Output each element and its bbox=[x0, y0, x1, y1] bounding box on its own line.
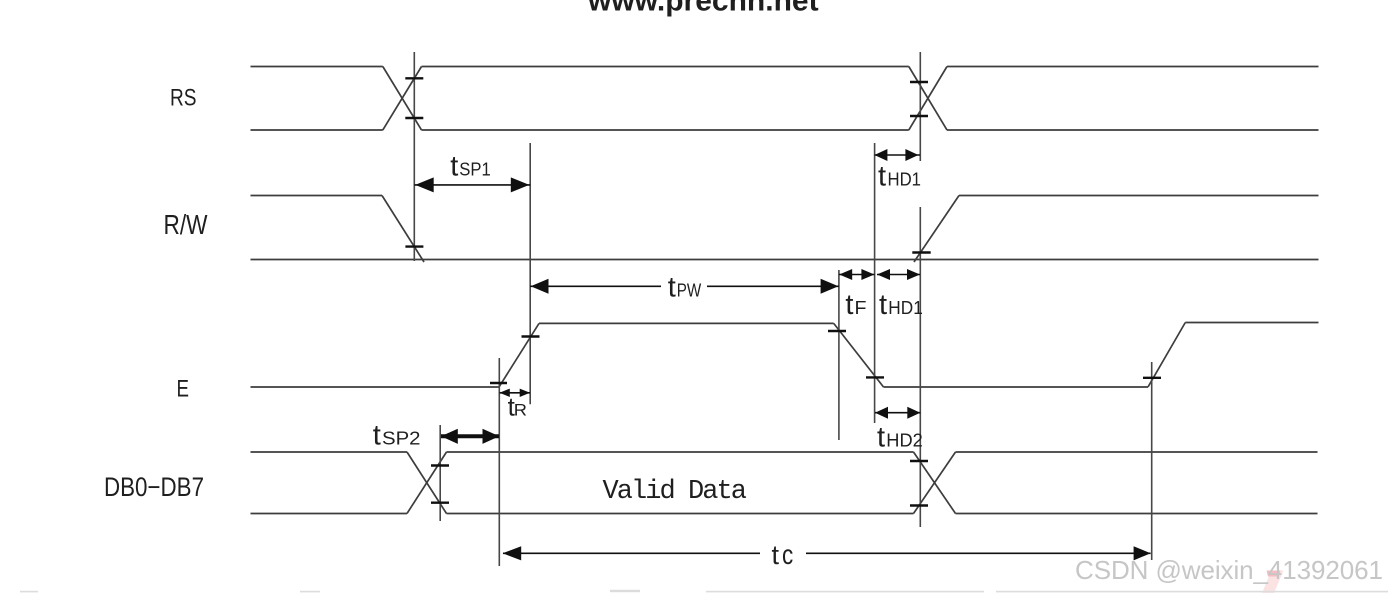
tick RS crossover1 lower bbox=[405, 117, 423, 119]
tick E fall top bbox=[828, 330, 846, 332]
DB crossover 2 falling edge bbox=[914, 452, 956, 514]
tick E fall bottom bbox=[866, 376, 884, 378]
dimension arrow tHD1 mid bbox=[877, 269, 920, 280]
signal DB low rail 3 bbox=[956, 513, 1318, 515]
label tPW bbox=[668, 271, 702, 303]
reference line x=1152 (tc end / E rise 2) bbox=[1151, 362, 1153, 560]
svg-text:PW: PW bbox=[677, 279, 702, 300]
svg-text:Valid Data: Valid Data bbox=[603, 477, 748, 507]
signal R/W low rail bbox=[251, 259, 1319, 261]
label tHD1 top bbox=[878, 161, 921, 193]
label tSP2 bbox=[373, 419, 421, 451]
tick DB crossover2 upper bbox=[910, 460, 928, 462]
reference line x=920 lower bbox=[919, 207, 921, 527]
svg-text:HD2: HD2 bbox=[886, 430, 923, 451]
signal RS low rail segment 2 bbox=[422, 129, 909, 131]
signal E high rail right bbox=[1185, 322, 1318, 324]
signal DB high rail 1 bbox=[251, 451, 408, 453]
E falling edge bbox=[834, 323, 884, 387]
svg-text:RS: RS bbox=[170, 85, 197, 112]
svg-text:R/W: R/W bbox=[164, 209, 208, 240]
bottom edge faint artifacts bbox=[20, 590, 1388, 593]
signal RS low rail segment 1 bbox=[251, 129, 383, 131]
dimension arrow tSP2 (bold) bbox=[441, 429, 499, 444]
RS crossover 1 rising edge bbox=[383, 67, 422, 131]
E rising edge 2 bbox=[1148, 323, 1185, 388]
signal R/W high rail right bbox=[959, 195, 1319, 197]
svg-text:HD1: HD1 bbox=[888, 297, 923, 318]
E rising edge 1 bbox=[499, 323, 539, 387]
svg-text:DB0−DB7: DB0−DB7 bbox=[104, 472, 204, 502]
dimension arrow tPW bbox=[530, 279, 839, 294]
signal R/W high rail left bbox=[251, 195, 383, 197]
reference line x=414 (RS transition) bbox=[413, 52, 415, 261]
CSDN watermark red logo slash bbox=[1262, 571, 1284, 593]
svg-text:CSDN @weixin_41392061: CSDN @weixin_41392061 bbox=[1075, 555, 1383, 585]
R/W rising edge bbox=[914, 196, 959, 263]
label tHD1 mid bbox=[879, 289, 923, 321]
tick R/W rising edge bbox=[912, 251, 930, 253]
CSDN watermark red logo dark spot bbox=[1267, 571, 1281, 577]
RS crossover 2 rising edge bbox=[909, 67, 947, 131]
dimension arrow tR bbox=[500, 389, 531, 397]
tick E rise1 base bbox=[490, 382, 507, 384]
RS crossover 2 falling edge bbox=[909, 67, 947, 131]
tick DB crossover1 lower bbox=[431, 502, 449, 504]
svg-text:R: R bbox=[514, 402, 527, 420]
svg-text:t: t bbox=[373, 419, 381, 451]
svg-text:SP1: SP1 bbox=[459, 158, 491, 179]
tick DB crossover1 upper bbox=[431, 464, 449, 466]
dimension arrow tHD2 bbox=[875, 407, 920, 419]
svg-text:E: E bbox=[177, 375, 190, 402]
tick E rise1 mid bbox=[522, 335, 540, 337]
signal RS high rail segment 1 bbox=[251, 66, 383, 68]
signal DB low rail 2 bbox=[447, 513, 914, 515]
label tF bbox=[845, 289, 866, 321]
dimension arrow tF bbox=[839, 269, 875, 280]
signal E low rail left bbox=[251, 386, 500, 388]
signal DB high rail 2 bbox=[447, 451, 914, 453]
svg-text:t: t bbox=[877, 422, 885, 454]
reference line x=875 (E fall end) bbox=[874, 143, 876, 423]
tick R/W falling edge bbox=[405, 245, 423, 247]
tick DB crossover2 lower bbox=[910, 504, 928, 506]
label tSP1 bbox=[450, 150, 491, 182]
signal E low rail middle bbox=[884, 386, 1149, 388]
svg-text:t: t bbox=[879, 289, 887, 321]
label tc bbox=[772, 539, 794, 570]
svg-text:t: t bbox=[772, 540, 780, 570]
svg-text:t: t bbox=[878, 161, 886, 193]
svg-text:SP2: SP2 bbox=[382, 427, 421, 448]
label tHD2 bbox=[877, 422, 923, 454]
dimension arrow tSP1 bbox=[414, 177, 530, 192]
DB crossover 1 rising edge bbox=[407, 452, 447, 514]
svg-text:t: t bbox=[450, 150, 458, 182]
label tR bbox=[508, 392, 527, 422]
svg-text:F: F bbox=[855, 297, 867, 318]
signal RS high rail segment 2 bbox=[422, 66, 909, 68]
reference line x=920 upper (RS/RW transition) bbox=[919, 52, 921, 161]
svg-text:www.precnn.net: www.precnn.net bbox=[587, 0, 819, 18]
DB crossover 1 falling edge bbox=[407, 452, 447, 514]
dimension arrow tHD1 top bbox=[874, 149, 920, 161]
R/W falling edge bbox=[382, 196, 424, 263]
reference line x=530 (tSP1 end / E rise) bbox=[529, 143, 531, 404]
signal DB low rail 1 bbox=[251, 513, 408, 515]
signal RS low rail segment 3 bbox=[947, 129, 1319, 131]
tick RS crossover2 lower bbox=[910, 115, 928, 117]
svg-text:t: t bbox=[845, 289, 853, 321]
signal RS high rail segment 3 bbox=[947, 66, 1319, 68]
svg-text:c: c bbox=[782, 539, 793, 570]
dimension arrow tc bbox=[503, 546, 1151, 560]
signal E high rail bbox=[539, 322, 834, 324]
reference line x=839 (E fall start) bbox=[838, 270, 840, 440]
signal DB high rail 3 bbox=[956, 451, 1318, 453]
tick RS crossover1 upper bbox=[405, 77, 423, 79]
reference line x=499 (E rise start / tc start) bbox=[498, 358, 500, 566]
reference line x=440 (DB transition) bbox=[439, 425, 441, 521]
tick E rise2 bbox=[1143, 377, 1161, 379]
svg-text:HD1: HD1 bbox=[888, 169, 922, 190]
RS crossover 1 falling edge bbox=[383, 67, 422, 131]
DB crossover 2 rising edge bbox=[914, 452, 956, 514]
tick RS crossover2 upper bbox=[910, 81, 928, 83]
svg-text:t: t bbox=[668, 271, 676, 303]
